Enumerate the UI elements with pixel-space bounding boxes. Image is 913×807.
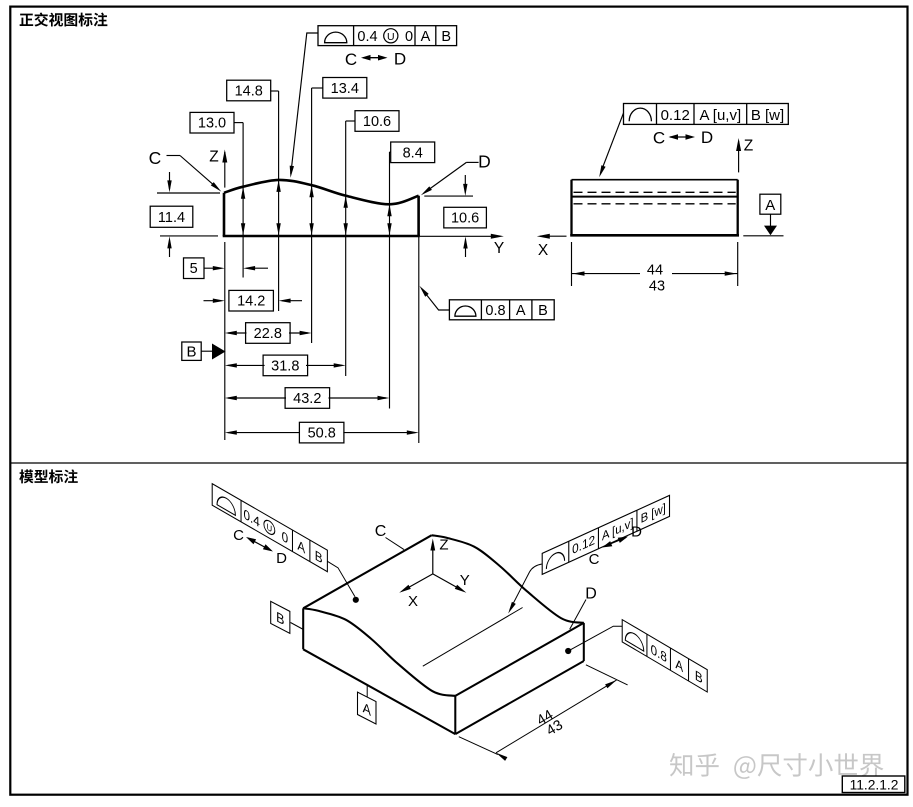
svg-text:D: D [631, 523, 642, 540]
down arrow at bottom for 8.4 [387, 223, 391, 235]
svg-text:Y: Y [460, 572, 470, 589]
dimension box 8.4 [391, 142, 435, 163]
svg-text:X: X [538, 242, 549, 259]
model: section trace line on top face [423, 608, 523, 667]
dimension box 13.0 [190, 112, 234, 133]
dimension 31.8 row [228, 364, 265, 366]
dimension 10.6 right of left view [424, 195, 473, 197]
down arrow at bottom for 14.8 [276, 223, 280, 235]
svg-text:11.4: 11.4 [158, 210, 185, 226]
model datum B (sheared box) [271, 601, 290, 633]
dimension 5 row [184, 258, 205, 279]
svg-text:D: D [478, 152, 491, 172]
left view: wave top profile [224, 180, 419, 204]
svg-text:C: C [589, 551, 600, 568]
leader FCF1 to wave peak [291, 33, 318, 174]
svg-text:A [u,v]: A [u,v] [699, 107, 741, 124]
svg-text:31.8: 31.8 [271, 358, 299, 374]
extension line below right edge [418, 196, 420, 443]
svg-text:5: 5 [190, 261, 198, 277]
svg-text:B: B [441, 29, 451, 45]
datum A box [760, 194, 781, 214]
left view: bottom edge [223, 235, 420, 238]
leader FCF-A to dot on top face [327, 561, 355, 597]
dimension 22.8 row [228, 332, 247, 334]
svg-text:0.8: 0.8 [485, 303, 505, 319]
svg-text:10.6: 10.6 [451, 211, 479, 227]
leader + extension line for 14.8 [271, 90, 279, 92]
svg-text:X: X [408, 593, 418, 610]
datum B filled triangle [212, 344, 226, 360]
dimension box 13.4 [323, 78, 367, 99]
model axis triad [432, 543, 434, 574]
svg-text:C: C [375, 523, 387, 540]
svg-text:0.4: 0.4 [357, 29, 377, 45]
dimension 50.8 row [228, 432, 300, 434]
model: left face wave curve [303, 608, 455, 696]
X axis right view [540, 235, 567, 237]
svg-text:13.0: 13.0 [198, 116, 226, 132]
section divider line [11, 462, 907, 464]
leader + extension line for 13.0 [234, 122, 243, 124]
svg-text:13.4: 13.4 [331, 81, 359, 97]
model: bottom-left edge [303, 649, 455, 734]
svg-text:Z: Z [744, 138, 753, 155]
dashed tolerance zone lines [574, 191, 736, 193]
corner id box 11.2.1.2 [842, 776, 905, 793]
model: left vertical edge [302, 608, 304, 649]
svg-text:A: A [516, 303, 526, 319]
datum B box [182, 342, 201, 360]
right view rectangle [572, 179, 738, 181]
svg-text:8.4: 8.4 [403, 145, 423, 161]
feature control frame 0.12 A[u,v] B[w] [624, 104, 789, 125]
extension line below left edge [224, 242, 226, 440]
up arrow at wave for 10.6 [344, 196, 348, 208]
svg-text:B: B [538, 303, 548, 319]
svg-text:43: 43 [649, 279, 665, 295]
Z axis left view [224, 152, 226, 188]
leader + extension line for 10.6 [346, 120, 355, 122]
svg-text:0.12: 0.12 [661, 107, 690, 124]
down arrow at bottom for 10.6 [344, 223, 348, 235]
svg-text:14.8: 14.8 [235, 84, 263, 100]
down arrow at bottom for 13.4 [309, 223, 313, 235]
model feature control frame 0.8 A B (rotated) [622, 620, 707, 692]
svg-text:0: 0 [405, 29, 413, 45]
model: right top wave curve [432, 535, 584, 623]
model 44/43 dimension [459, 737, 498, 755]
svg-text:C: C [149, 148, 162, 168]
svg-text:50.8: 50.8 [308, 426, 336, 442]
svg-text:D: D [276, 550, 287, 567]
svg-text:44: 44 [647, 263, 663, 279]
leader FCF-C to dot on right face [570, 626, 623, 650]
dimension 11.4 left [157, 192, 220, 194]
44/43 dimension below right view [571, 242, 573, 286]
svg-text:U: U [387, 31, 395, 43]
leader FCF-B to section trace [510, 564, 542, 610]
dimension 43.2 row [228, 397, 286, 399]
model: right vertical edge [583, 623, 585, 661]
svg-text:B: B [186, 344, 196, 361]
model feature control frame 0.12 A[u,v] B[w] (rotated) [542, 495, 669, 574]
model: front vertical edge [454, 696, 456, 734]
left view: left edge [223, 193, 226, 236]
model: bottom-right edge [455, 661, 584, 734]
watermark zhihu [671, 755, 693, 778]
datum A filled triangle [764, 226, 777, 236]
svg-text:Z: Z [439, 537, 448, 554]
title: model annotation [19, 469, 33, 483]
left view: right edge [417, 196, 420, 236]
feature control frame 0.8 A B [449, 300, 554, 320]
dimension 14.2 row [204, 300, 222, 302]
svg-text:D: D [701, 128, 713, 147]
up arrow at wave for 14.8 [276, 180, 280, 192]
svg-text:C: C [233, 527, 244, 544]
svg-text:A: A [421, 29, 431, 45]
leader FCF3 to right edge extension [422, 289, 450, 310]
dimension box 10.6 [355, 111, 399, 132]
svg-text:C: C [345, 50, 357, 69]
svg-text:22.8: 22.8 [254, 326, 282, 342]
svg-text:Y: Y [494, 240, 504, 257]
svg-text:11.2.1.2: 11.2.1.2 [850, 778, 899, 793]
line profile symbol (open arc) [629, 108, 651, 121]
svg-text:14.2: 14.2 [237, 294, 265, 310]
model: back-left top edge [303, 535, 432, 608]
model: front-right top edge [455, 623, 584, 696]
model feature control frame 0.4 U 0 A B (rotated) [212, 484, 327, 572]
model datum A (sheared box) [358, 692, 376, 724]
svg-text:B [w]: B [w] [751, 107, 784, 124]
leader + extension line for 8.4 [390, 151, 391, 153]
svg-text:D: D [394, 50, 406, 69]
svg-text:Z: Z [209, 148, 218, 165]
svg-text:C: C [653, 129, 665, 148]
surface profile symbol [325, 32, 347, 43]
leader + extension line for 13.4 [312, 87, 323, 89]
title: orthographic view annotation [20, 14, 34, 26]
up arrow at wave for 8.4 [387, 204, 391, 216]
up arrow at wave for 13.0 [241, 187, 245, 199]
down arrow at bottom for 13.0 [241, 223, 245, 235]
svg-text:43.2: 43.2 [293, 391, 321, 407]
svg-text:D: D [585, 586, 597, 603]
feature control frame 0.4 U 0 A B [318, 26, 457, 46]
svg-text:10.6: 10.6 [363, 114, 391, 130]
leader FCF2 to top edge [601, 113, 624, 173]
up arrow at wave for 13.4 [309, 185, 313, 197]
Y axis left view [420, 235, 500, 237]
svg-text:A: A [765, 197, 775, 214]
Z axis right view [738, 141, 740, 172]
surface profile symbol [455, 306, 476, 316]
dimension box 14.8 [227, 80, 271, 101]
